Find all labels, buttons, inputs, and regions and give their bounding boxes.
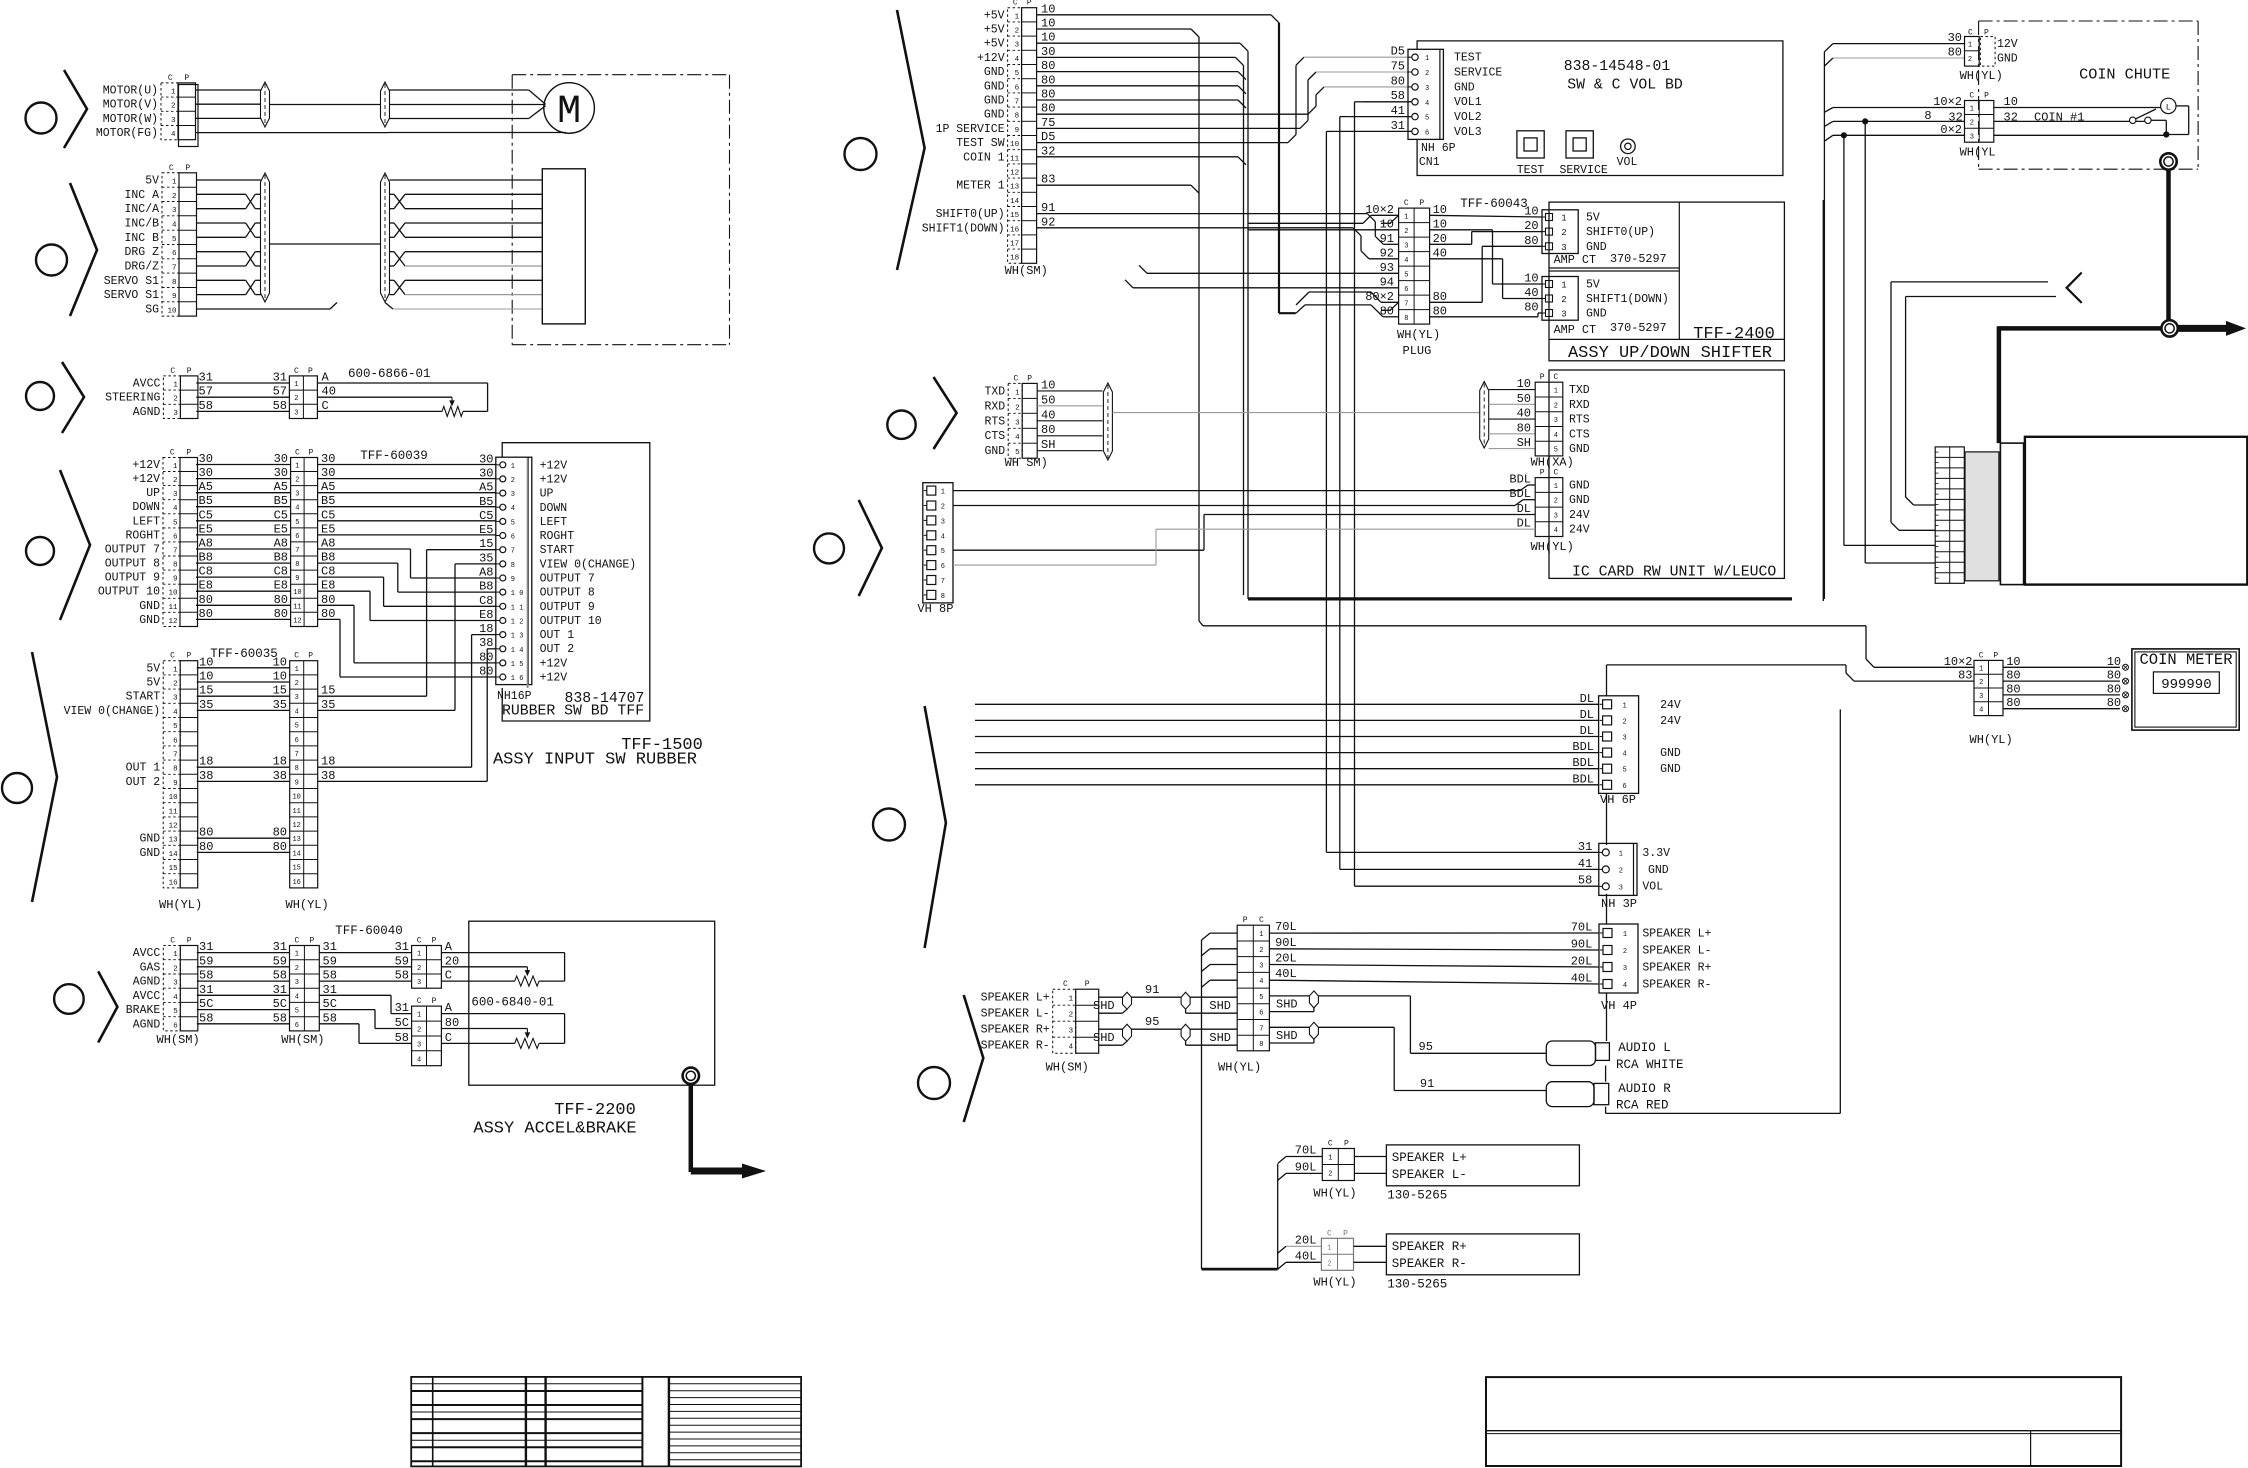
svg-text:+12V: +12V [540, 672, 568, 685]
coin meter box [2132, 649, 2239, 730]
svg-text:4: 4 [1015, 434, 1020, 442]
connector NH 6P CN1 [1408, 49, 1443, 139]
svg-text:COIN 1: COIN 1 [963, 151, 1005, 164]
wires 10x2 10 to plug [1248, 215, 1399, 230]
board outline 838-14548-01 SW&C VOL BD [1417, 41, 1783, 176]
connector serial 5P (left) [984, 374, 1037, 458]
svg-text:4: 4 [1425, 100, 1429, 108]
svg-text:95: 95 [1145, 1015, 1159, 1029]
svg-text:P: P [1540, 469, 1545, 478]
label ASSY INPUT SW RUBBER [493, 751, 697, 770]
svg-text:E8: E8 [479, 608, 493, 622]
svg-text:80: 80 [1391, 74, 1405, 88]
svg-text:3: 3 [1554, 513, 1558, 521]
svg-text:P: P [1085, 980, 1090, 989]
box SPEAKER R 130-5265 [1354, 1234, 1580, 1275]
svg-text:1: 1 [1327, 1244, 1331, 1252]
connector WH(YL) 2P speaker L [1322, 1140, 1354, 1181]
cable bundle serial right [1480, 382, 1489, 449]
ring terminal 2 [2161, 320, 2177, 336]
svg-text:P: P [1984, 29, 1989, 38]
svg-text:GND: GND [1648, 864, 1669, 877]
svg-text:2: 2 [1259, 947, 1263, 955]
svg-text:6: 6 [295, 533, 299, 541]
svg-text:8: 8 [511, 562, 515, 570]
svg-text:1: 1 [1404, 213, 1408, 221]
svg-text:3: 3 [172, 207, 177, 215]
svg-text:24V: 24V [1569, 524, 1590, 537]
svg-text:ASSY INPUT SW RUBBER: ASSY INPUT SW RUBBER [493, 751, 697, 770]
svg-text:TFF-2400: TFF-2400 [1693, 325, 1775, 344]
svg-text:30: 30 [321, 452, 335, 466]
chain-line enclosure COIN CHUTE [1979, 21, 2199, 169]
svg-text:SHIFT0(UP): SHIFT0(UP) [936, 208, 1005, 221]
svg-text:130-5265: 130-5265 [1387, 1189, 1447, 1203]
label COIN CHUTE [2079, 66, 2170, 84]
svg-text:OUTPUT 8: OUTPUT 8 [105, 558, 160, 571]
svg-text:B8: B8 [479, 580, 493, 594]
svg-text:DL: DL [1517, 517, 1531, 531]
page connector chevron G11 [964, 995, 984, 1122]
svg-text:58: 58 [273, 399, 287, 413]
svg-text:GND: GND [1569, 494, 1590, 507]
svg-text:1: 1 [1328, 1155, 1332, 1163]
svg-text:UP: UP [540, 488, 554, 501]
svg-text:AGND: AGND [133, 406, 161, 419]
svg-text:E8: E8 [199, 579, 213, 593]
page connector symbol circle G4 [26, 537, 54, 565]
svg-text:14: 14 [1010, 198, 1020, 206]
svg-text:10: 10 [167, 308, 177, 316]
svg-text:10: 10 [169, 794, 179, 802]
svg-text:80: 80 [1380, 304, 1394, 318]
svg-text:VOL1: VOL1 [1454, 96, 1482, 109]
svg-text:RTS: RTS [984, 415, 1005, 428]
svg-text:TXD: TXD [984, 385, 1005, 398]
svg-text:SPEAKER R+: SPEAKER R+ [1392, 1240, 1467, 1254]
svg-text:GND: GND [984, 95, 1005, 108]
label VH 6P [1600, 793, 1636, 807]
svg-text:SHD: SHD [1276, 998, 1298, 1012]
cable bundle encoder right [381, 173, 390, 302]
svg-text:1: 1 [1979, 665, 1983, 673]
svg-text:SH: SH [1041, 438, 1055, 452]
svg-text:1: 1 [171, 89, 176, 97]
svg-text:3: 3 [417, 1041, 421, 1049]
svg-text:ROGHT: ROGHT [125, 529, 160, 542]
label 130-5265 (L) [1387, 1189, 1447, 1203]
svg-text:1P SERVICE: 1P SERVICE [936, 123, 1005, 136]
svg-text:C: C [295, 449, 300, 458]
connector TFF-60040 mid [290, 937, 320, 1031]
svg-text:B8: B8 [199, 551, 213, 565]
svg-text:WH(YL): WH(YL) [1531, 540, 1574, 554]
labels coin right [2004, 95, 2085, 124]
heavy arrow right [2178, 321, 2246, 336]
svg-text:370-5297: 370-5297 [1610, 321, 1667, 335]
wires 70L 90L 20L 40L [1269, 920, 1599, 984]
svg-text:1: 1 [1622, 702, 1626, 710]
connector motor 4P (left) [96, 74, 198, 147]
svg-text:AUDIO R: AUDIO R [1618, 1082, 1671, 1096]
labels coin meter left [1944, 655, 1973, 683]
label TFF-60040 [335, 924, 403, 938]
svg-text:OUTPUT 10: OUTPUT 10 [98, 586, 160, 599]
svg-text:C: C [294, 937, 299, 946]
svg-text:A5: A5 [199, 480, 213, 494]
svg-text:5C: 5C [199, 997, 213, 1011]
bus verticals v2 [1037, 43, 1248, 599]
svg-text:SPEAKER R-: SPEAKER R- [1392, 1257, 1467, 1271]
svg-text:MOTOR(W): MOTOR(W) [103, 113, 158, 126]
motor M circle [544, 83, 595, 135]
svg-text:PLUG: PLUG [1403, 344, 1432, 358]
svg-text:4: 4 [173, 709, 178, 717]
svg-text:5: 5 [295, 1008, 299, 1016]
svg-text:8: 8 [1259, 1041, 1263, 1049]
svg-text:5: 5 [173, 519, 178, 527]
svg-text:600-6840-01: 600-6840-01 [471, 996, 554, 1010]
svg-text:1: 1 [295, 951, 299, 959]
svg-text:P: P [1027, 374, 1032, 383]
label WH(YL) spk R [1313, 1276, 1356, 1290]
connector WH(YL) PLUG 8P [1399, 199, 1430, 324]
connector WH(YL) 4P ic-card [1535, 469, 1563, 537]
svg-text:91: 91 [1145, 983, 1159, 997]
page connector symbol circle G7 [845, 138, 877, 170]
svg-text:4: 4 [172, 222, 177, 230]
svg-text:50: 50 [1041, 393, 1055, 407]
svg-text:8: 8 [295, 765, 299, 773]
svg-text:P: P [1540, 373, 1545, 382]
page connector symbol circle G8 [887, 411, 915, 439]
svg-text:2: 2 [173, 477, 178, 485]
svg-text:TXD: TXD [1569, 384, 1590, 397]
svg-text:1: 1 [173, 951, 178, 959]
labels AMP CT wire numbers [1524, 205, 1538, 315]
svg-text:1: 1 [294, 381, 298, 389]
svg-text:5V: 5V [1586, 279, 1600, 292]
svg-text:1 1: 1 1 [511, 604, 524, 612]
label VH 4P [1601, 999, 1637, 1013]
svg-text:6: 6 [1015, 84, 1020, 92]
wire net v1 to coin meter pin1 [1037, 29, 1974, 667]
svg-text:RCA RED: RCA RED [1616, 1099, 1669, 1113]
svg-text:15: 15 [292, 865, 300, 873]
svg-text:80: 80 [273, 826, 287, 840]
page connector symbol circle G2 [36, 245, 67, 276]
svg-text:DOWN: DOWN [540, 502, 568, 515]
svg-text:38: 38 [479, 636, 493, 650]
svg-text:11: 11 [168, 604, 178, 612]
svg-text:P: P [308, 367, 313, 376]
svg-text:1: 1 [1970, 106, 1974, 114]
svg-text:RTS: RTS [1569, 414, 1590, 427]
svg-text:5V: 5V [145, 175, 159, 188]
svg-text:14: 14 [292, 850, 300, 858]
svg-text:GND: GND [984, 445, 1005, 458]
svg-text:40: 40 [1524, 286, 1538, 300]
svg-text:A8: A8 [199, 537, 213, 551]
svg-text:RXD: RXD [1569, 399, 1590, 412]
svg-text:3: 3 [1970, 133, 1974, 141]
svg-text:1: 1 [417, 1012, 421, 1020]
svg-text:91: 91 [1380, 232, 1394, 246]
svg-text:CN1: CN1 [1419, 156, 1440, 169]
wires motor U V W FG [196, 90, 388, 133]
svg-text:GND: GND [1454, 81, 1475, 94]
svg-text:SPEAKER R-: SPEAKER R- [1642, 979, 1711, 992]
svg-text:2: 2 [1327, 1260, 1331, 1268]
wires speaker right shields to RCA [1269, 991, 1546, 1091]
label AMP CT 370-5297 (2) [1554, 321, 1667, 337]
svg-text:NH 6P: NH 6P [1421, 142, 1456, 155]
labels coin feed [1924, 31, 1962, 137]
svg-text:16: 16 [292, 879, 300, 887]
svg-text:3: 3 [1623, 965, 1627, 973]
svg-text:2: 2 [1554, 498, 1558, 506]
wire METER1 83 [1037, 185, 1199, 193]
svg-text:5: 5 [295, 519, 299, 527]
svg-text:6: 6 [173, 1022, 178, 1030]
svg-text:80: 80 [199, 607, 213, 621]
svg-text:AVCC: AVCC [133, 947, 161, 960]
svg-text:9: 9 [173, 780, 178, 788]
wires plug to AMP CT [1430, 215, 1542, 316]
svg-text:TEST SW: TEST SW [956, 137, 1004, 150]
svg-text:24V: 24V [1660, 699, 1681, 712]
svg-text:12: 12 [1010, 170, 1019, 178]
svg-text:15: 15 [1010, 212, 1020, 220]
svg-text:10×2: 10×2 [1933, 95, 1962, 109]
svg-text:BDL: BDL [1572, 772, 1594, 786]
svg-text:8: 8 [172, 279, 177, 287]
wire RCA L to RCA R [1605, 1066, 1607, 1082]
svg-text:30: 30 [1948, 31, 1962, 45]
svg-text:7: 7 [295, 751, 299, 759]
svg-text:WH(SM): WH(SM) [1046, 1061, 1089, 1075]
svg-text:2: 2 [295, 965, 299, 973]
svg-text:C: C [170, 652, 175, 661]
svg-text:OUTPUT 7: OUTPUT 7 [540, 573, 595, 586]
svg-text:GND: GND [139, 614, 160, 627]
svg-text:2: 2 [417, 1027, 421, 1035]
svg-text:80: 80 [199, 593, 213, 607]
svg-text:18: 18 [273, 755, 287, 769]
svg-text:P: P [1344, 1140, 1349, 1149]
svg-text:C5: C5 [321, 508, 335, 522]
svg-text:3: 3 [941, 518, 945, 526]
svg-text:C: C [1063, 980, 1068, 989]
svg-text:4: 4 [511, 505, 515, 513]
rca audio L [1546, 1041, 1609, 1066]
svg-text:P: P [1419, 199, 1424, 208]
wires TFF-60035 left [197, 655, 290, 854]
wire serial cable [1112, 412, 1479, 414]
cable bundle encoder left [261, 173, 270, 302]
svg-text:80: 80 [274, 607, 288, 621]
svg-text:SHD: SHD [1276, 1029, 1298, 1043]
svg-text:6: 6 [941, 563, 945, 571]
svg-text:SH: SH [1517, 436, 1531, 450]
label WH(XA) [1531, 456, 1574, 470]
svg-text:5: 5 [1259, 994, 1263, 1002]
svg-text:5: 5 [1404, 271, 1408, 279]
svg-text:6: 6 [1425, 129, 1429, 137]
svg-text:P: P [1027, 0, 1032, 8]
svg-text:ASSY UP/DOWN SHIFTER: ASSY UP/DOWN SHIFTER [1568, 344, 1772, 363]
svg-text:10: 10 [2006, 655, 2020, 669]
svg-text:3: 3 [295, 979, 299, 987]
svg-text:20L: 20L [1295, 1233, 1317, 1247]
page connector chevron G3 [62, 362, 84, 433]
svg-text:70L: 70L [1295, 1144, 1317, 1158]
svg-text:WH SM): WH SM) [1005, 456, 1048, 470]
svg-text:MOTOR(U): MOTOR(U) [103, 85, 158, 98]
svg-text:VIEW 0(CHANGE): VIEW 0(CHANGE) [540, 558, 637, 571]
svg-text:1: 1 [1069, 996, 1074, 1004]
page connector chevron G8 [934, 377, 957, 449]
revision table left [411, 1377, 801, 1467]
svg-text:1: 1 [1561, 214, 1566, 224]
svg-text:58: 58 [395, 1031, 409, 1045]
potentiometer gas [441, 940, 564, 986]
svg-text:6: 6 [295, 1022, 299, 1030]
svg-text:P: P [1993, 651, 1998, 660]
svg-text:9: 9 [511, 576, 515, 584]
svg-text:7: 7 [1404, 300, 1408, 308]
svg-text:5: 5 [172, 236, 177, 244]
svg-text:13: 13 [169, 837, 179, 845]
labels VH6P [1660, 699, 1681, 776]
label PLUG [1403, 344, 1432, 358]
svg-text:3: 3 [295, 491, 299, 499]
svg-text:1: 1 [1561, 281, 1566, 291]
connector TFF-60039 (left) [98, 449, 198, 627]
cable bundle serial left [1103, 383, 1112, 460]
svg-text:10: 10 [1517, 377, 1531, 391]
svg-text:UP: UP [146, 487, 160, 500]
svg-text:58: 58 [1391, 89, 1405, 103]
svg-text:M: M [557, 90, 581, 135]
svg-text:11: 11 [292, 808, 300, 816]
svg-text:COIN METER: COIN METER [2139, 651, 2232, 669]
svg-text:MOTOR(FG): MOTOR(FG) [96, 127, 158, 140]
svg-text:VH 8P: VH 8P [917, 602, 953, 616]
svg-text:3: 3 [1561, 243, 1566, 253]
svg-text:SPEAKER L-: SPEAKER L- [1642, 945, 1711, 958]
svg-text:30: 30 [321, 466, 335, 480]
svg-text:90L: 90L [1295, 1160, 1317, 1174]
svg-text:P: P [1243, 916, 1248, 925]
svg-text:C: C [1553, 373, 1558, 382]
svg-text:1: 1 [1259, 931, 1263, 939]
svg-text:INC A: INC A [124, 189, 159, 202]
wires serial right [1489, 377, 1536, 450]
svg-text:8: 8 [295, 561, 299, 569]
wires VH8P to ic-card [953, 485, 1535, 565]
potentiometer steering 600-6866-01 [317, 371, 487, 417]
svg-text:WH(YL): WH(YL) [1970, 733, 2013, 747]
svg-text:58: 58 [273, 969, 287, 983]
svg-text:TFF-60035: TFF-60035 [210, 647, 278, 661]
wires to coin meter [2003, 655, 2129, 712]
svg-text:+12V: +12V [540, 657, 568, 670]
svg-text:GND: GND [1569, 480, 1590, 493]
svg-text:57: 57 [199, 385, 213, 399]
svg-text:GND: GND [1660, 763, 1681, 776]
connector AMP CT shift1 [1542, 277, 1578, 321]
wire NH3P to VH4P [1606, 894, 1608, 924]
connector WH(YL) coin 12V [1965, 29, 1996, 67]
svg-text:10: 10 [2107, 655, 2121, 669]
label WH(SM) 18P [1005, 264, 1048, 278]
svg-text:7: 7 [941, 578, 945, 586]
svg-text:C: C [1979, 651, 1984, 660]
svg-text:11: 11 [1010, 155, 1020, 163]
svg-text:GND: GND [984, 66, 1005, 79]
svg-text:20: 20 [1524, 219, 1538, 233]
svg-text:WH(YL): WH(YL) [1960, 69, 2003, 83]
svg-text:31: 31 [1391, 119, 1405, 133]
svg-text:10: 10 [1041, 378, 1055, 392]
svg-text:+5V: +5V [984, 9, 1005, 22]
svg-text:ROGHT: ROGHT [540, 530, 575, 543]
svg-text:0×2: 0×2 [1940, 123, 1962, 137]
svg-text:CTS: CTS [1569, 428, 1590, 441]
label WH(SM) speaker [1046, 1061, 1089, 1075]
svg-text:90L: 90L [1275, 936, 1297, 950]
connector speaker WH(SM) [981, 980, 1099, 1053]
svg-text:1: 1 [295, 463, 299, 471]
svg-text:5: 5 [1622, 767, 1626, 775]
svg-text:31: 31 [323, 940, 337, 954]
svg-text:4: 4 [1015, 56, 1020, 64]
svg-text:8: 8 [1015, 113, 1020, 121]
svg-text:2: 2 [417, 965, 421, 973]
svg-text:2: 2 [1979, 679, 1983, 687]
svg-text:STEERING: STEERING [105, 392, 160, 405]
svg-text:OUTPUT 9: OUTPUT 9 [105, 572, 160, 585]
svg-text:1 0: 1 0 [511, 590, 524, 598]
svg-text:58: 58 [273, 1011, 287, 1025]
svg-text:3: 3 [1622, 735, 1626, 743]
button SERVICE [1559, 131, 1607, 177]
svg-text:GND: GND [139, 600, 160, 613]
svg-text:START: START [540, 544, 575, 557]
connector encoder 10P (left) [104, 164, 197, 317]
wire motor cable [270, 104, 381, 106]
svg-text:18: 18 [1010, 255, 1019, 263]
label TFF-2200 [554, 1101, 636, 1120]
svg-text:80: 80 [479, 665, 493, 679]
connector NH16P [496, 457, 532, 688]
svg-text:GND: GND [1586, 308, 1607, 321]
svg-text:B5: B5 [321, 494, 335, 508]
svg-text:VOL3: VOL3 [1454, 126, 1482, 139]
svg-text:BRAKE: BRAKE [126, 1004, 161, 1017]
svg-text:1 5: 1 5 [511, 661, 524, 669]
svg-text:WH(YL): WH(YL) [286, 898, 329, 912]
labels CN1 signals [1454, 52, 1502, 139]
svg-text:80: 80 [1524, 234, 1538, 248]
svg-text:3: 3 [295, 694, 299, 702]
svg-text:838-14548-01: 838-14548-01 [1564, 59, 1671, 75]
svg-text:DRG Z: DRG Z [124, 246, 159, 259]
svg-text:+12V: +12V [540, 473, 568, 486]
svg-text:38: 38 [199, 769, 213, 783]
svg-text:4: 4 [941, 533, 945, 541]
